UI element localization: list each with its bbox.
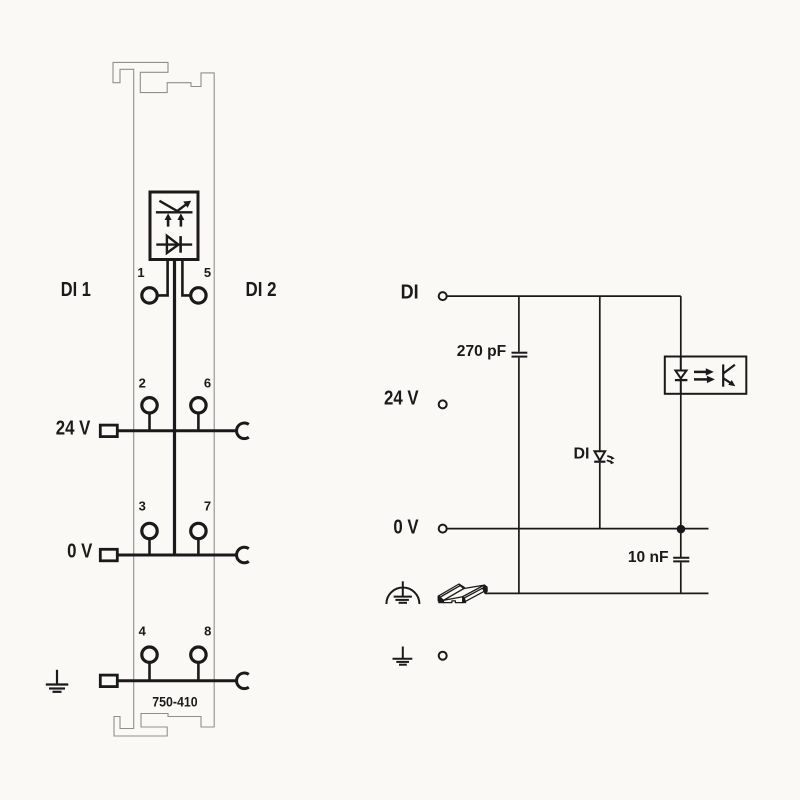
svg-text:2: 2: [139, 375, 146, 390]
svg-text:10 nF: 10 nF: [628, 549, 669, 566]
svg-text:24 V: 24 V: [56, 418, 91, 440]
wire DI net top: [447, 295, 681, 297]
status LED up arrow right: [177, 213, 184, 226]
optocoupler phototransistor: [723, 364, 735, 386]
24V bus wire: [117, 429, 238, 432]
svg-text:7: 7: [204, 498, 211, 513]
svg-text:DI 1: DI 1: [61, 279, 91, 301]
wire pin1 lead: [158, 260, 167, 296]
0V pass-through arc: [237, 547, 249, 563]
svg-text:1: 1: [137, 265, 144, 280]
svg-text:DI 2: DI 2: [246, 279, 277, 301]
pin 3 terminal: [142, 523, 157, 538]
wire branch2 lower: [599, 463, 601, 529]
wire branch3 upper: [680, 296, 682, 356]
capacitor C2 10nF: [673, 558, 689, 562]
pin 2 terminal: [142, 398, 157, 413]
wire branch1 upper: [518, 296, 520, 352]
junction node: [677, 525, 686, 534]
LED DI emission arrows: [607, 456, 612, 462]
optocoupler light arrows: [694, 368, 715, 383]
svg-text:4: 4: [139, 623, 147, 638]
terminal 0V: [439, 525, 447, 533]
0V feed square: [100, 549, 117, 561]
earth feed square: [100, 675, 117, 687]
wire stub pin4: [148, 662, 151, 680]
earth bus wire: [117, 679, 238, 682]
protection diode D1: [156, 236, 192, 253]
pin 4 terminal: [142, 647, 157, 662]
svg-text:8: 8: [204, 623, 211, 638]
module housing outline 750-410: [113, 62, 214, 736]
wire stub pin6: [197, 413, 200, 431]
pin 7 terminal: [191, 523, 206, 538]
svg-text:750-410: 750-410: [152, 694, 198, 709]
0V bus wire: [117, 554, 238, 557]
noiseless earth symbol: [386, 581, 419, 604]
pin 1 terminal: [142, 288, 157, 303]
wire center bus to 0V: [173, 260, 176, 556]
wire branch1 lower: [518, 358, 520, 594]
DIN rail symbol: [438, 584, 487, 603]
wire 0V net: [447, 528, 709, 530]
svg-text:DI: DI: [401, 282, 419, 304]
24V pass-through arc: [237, 423, 249, 439]
earth symbol bottom right: [393, 647, 413, 665]
terminal earth: [439, 652, 447, 660]
svg-text:24 V: 24 V: [384, 388, 419, 410]
svg-text:270 pF: 270 pF: [457, 343, 506, 360]
svg-text:6: 6: [204, 375, 211, 390]
svg-text:5: 5: [204, 265, 211, 280]
terminal 24V: [439, 400, 447, 408]
optocoupler LED: [675, 357, 688, 394]
wire pin5 lead: [182, 260, 190, 296]
pin 8 terminal: [191, 647, 206, 662]
wire stub pin3: [148, 539, 151, 555]
wire stub pin7: [197, 539, 200, 555]
pin 5 terminal: [191, 288, 206, 303]
wire branch2 upper: [599, 296, 601, 451]
svg-text:DI: DI: [574, 445, 590, 462]
svg-text:3: 3: [139, 498, 146, 513]
status LED up arrow left: [165, 213, 172, 226]
wire branch3 mid: [680, 394, 682, 557]
ground symbol left: [46, 670, 69, 692]
LED DI indicator: [594, 451, 605, 462]
status LED arrowhead: [184, 201, 190, 207]
wire stub pin8: [197, 662, 200, 680]
wire branch3 bottom: [680, 562, 682, 593]
electronics box U1: [150, 192, 198, 260]
svg-text:0 V: 0 V: [67, 541, 93, 563]
terminal DI: [439, 292, 447, 300]
earth pass-through arc: [237, 673, 249, 689]
pin 6 terminal: [191, 398, 206, 413]
status LED symbol: [156, 201, 193, 213]
24V feed square: [100, 425, 117, 437]
wire rail net bottom: [485, 592, 709, 594]
capacitor C1 270pF: [512, 353, 528, 357]
optocoupler U2 box: [665, 357, 747, 394]
wire stub pin2: [148, 413, 151, 431]
svg-text:0 V: 0 V: [393, 516, 419, 538]
